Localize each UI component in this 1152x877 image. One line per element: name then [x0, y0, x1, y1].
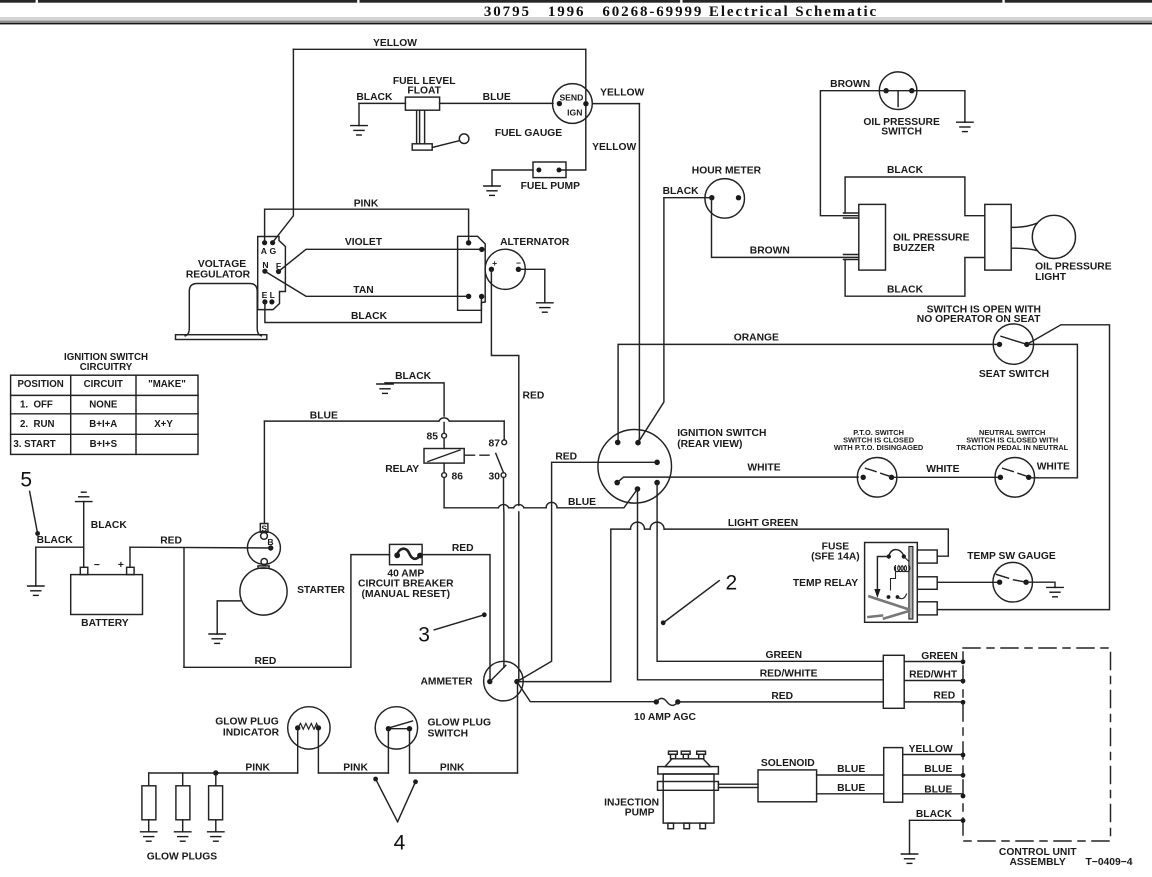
battery box	[71, 575, 143, 615]
pto switch circle	[857, 458, 897, 498]
temp relay stub 2	[917, 577, 937, 590]
wire ORANGE	[618, 344, 999, 442]
temp relay contact hooks	[887, 595, 891, 599]
blue hop over black vertical	[439, 418, 449, 421]
svg-text:X+Y: X+Y	[154, 419, 173, 430]
svg-text:BLUE: BLUE	[924, 785, 952, 796]
header tick 1	[36, 0, 38, 5]
oil pressure switch contacts	[886, 90, 912, 92]
svg-text:INDICATOR: INDICATOR	[223, 728, 280, 739]
glow plug switch circle	[375, 707, 417, 749]
wire battery minus vertical	[83, 502, 85, 568]
temp sw gauge pins	[997, 580, 1002, 585]
fuel gauge circle	[553, 84, 593, 124]
svg-text:ORANGE: ORANGE	[734, 332, 779, 343]
svg-text:10 AMP AGC: 10 AMP AGC	[634, 712, 697, 723]
svg-text:A: A	[261, 246, 267, 256]
svg-text:BLACK: BLACK	[663, 186, 700, 197]
glow plug resistor 3	[215, 773, 217, 786]
svg-text:FUEL GAUGE: FUEL GAUGE	[495, 128, 562, 139]
ground above battery (inverted)	[76, 492, 92, 501]
oil pressure light bulb	[1032, 215, 1075, 258]
svg-text:86: 86	[452, 472, 464, 483]
svg-text:WITH P.T.O. DISINGAGED: WITH P.T.O. DISINGAGED	[834, 443, 924, 452]
temp sw gauge arm	[997, 575, 1027, 583]
svg-text:N: N	[262, 260, 268, 270]
wire BLACK to float	[359, 102, 405, 104]
fuel gauge pin right	[583, 101, 588, 106]
callout 4 leaders	[376, 779, 398, 822]
buzzer connector stubs bottom-left	[844, 254, 859, 256]
ignition pin right-center	[654, 460, 660, 466]
svg-text:BROWN: BROWN	[830, 79, 870, 90]
wire BLUE connector to control unit 2	[903, 793, 963, 795]
wire starter to ground	[217, 601, 240, 634]
wire BLUE solenoid to connector 2	[817, 793, 884, 795]
tan pin dot	[466, 294, 471, 299]
svg-text:BLACK: BLACK	[916, 809, 953, 820]
svg-text:CIRCUITRY: CIRCUITRY	[80, 362, 133, 373]
fuel level float bottom	[412, 144, 432, 150]
glow plug resistor 1	[148, 773, 150, 786]
glow plug indicator pins	[295, 725, 300, 730]
svg-text:RED/WHT: RED/WHT	[909, 670, 958, 681]
wire RED connector to control unit	[904, 701, 963, 703]
svg-text:SOLENOID: SOLENOID	[761, 758, 815, 769]
svg-text:LIGHT GREEN: LIGHT GREEN	[728, 518, 798, 529]
neutral right pin	[1026, 475, 1031, 480]
temp relay coil	[894, 566, 910, 572]
solenoid box	[758, 770, 817, 802]
svg-text:OIL PRESSURE: OIL PRESSURE	[1035, 262, 1112, 273]
wire BLUE float to fuel gauge	[440, 102, 553, 104]
svg-text:YELLOW: YELLOW	[600, 88, 644, 99]
wire yellow long vertical to ignition switch	[638, 104, 639, 443]
wire YELLOW right of fuel gauge	[592, 103, 639, 105]
svg-text:RED/WHITE: RED/WHITE	[760, 669, 818, 680]
wire RED/WHT connector to control unit	[904, 680, 963, 682]
ignition pin left-lower	[614, 480, 620, 486]
wire P.T.O. WHITE from ignition left-lower	[617, 477, 858, 483]
starter S box	[260, 524, 268, 533]
svg-text:SEND: SEND	[559, 93, 583, 103]
wire fuel pump to ground	[492, 170, 533, 186]
svg-text:BLACK: BLACK	[887, 165, 924, 176]
ammeter circle	[484, 661, 524, 701]
violet pin dot at alternator connector	[479, 247, 484, 252]
svg-text:E: E	[262, 290, 268, 300]
seat switch right pin	[1024, 342, 1029, 347]
wire BLACK battery minus left	[36, 546, 84, 548]
svg-text:G: G	[270, 246, 277, 256]
fuel pump box	[533, 162, 566, 178]
svg-text:−: −	[94, 560, 100, 571]
svg-text:−: −	[516, 258, 521, 268]
svg-text:GREEN: GREEN	[921, 651, 958, 662]
svg-text:BLACK: BLACK	[356, 92, 393, 103]
ignition pin top-mid	[635, 440, 641, 446]
svg-text:(REAR VIEW): (REAR VIEW)	[677, 439, 742, 450]
relay terminal 30	[501, 473, 506, 478]
callout 5 leader	[30, 491, 38, 533]
callout 3 leader	[434, 615, 484, 630]
header gray bar	[0, 17, 1152, 21]
wire TAN from N pin to alternator connector	[265, 271, 469, 296]
fuel gauge pin left	[557, 101, 562, 106]
svg-text:WHITE: WHITE	[1037, 462, 1070, 473]
svg-text:VIOLET: VIOLET	[345, 237, 383, 248]
wire ammeter to 10 amp fuse RED	[517, 682, 654, 702]
svg-text:BLUE: BLUE	[837, 783, 865, 794]
starter main circle	[240, 568, 287, 615]
alternator minus pin	[516, 267, 521, 272]
svg-text:GREEN: GREEN	[765, 650, 802, 661]
pin N	[262, 269, 267, 274]
injection pump flange 1	[658, 767, 719, 774]
ground (temp sw gauge)	[1047, 587, 1063, 596]
svg-text:B+I+A: B+I+A	[89, 419, 117, 430]
temp relay fuse arc	[889, 550, 904, 557]
ground (float black)	[351, 126, 367, 135]
wire red plus terminal up	[129, 547, 131, 567]
ignition switch circle	[598, 430, 672, 504]
hour meter right pin	[736, 195, 741, 200]
svg-text:ALTERNATOR: ALTERNATOR	[500, 237, 570, 248]
wire RED breaker to ammeter	[422, 555, 490, 681]
ignition pin bottom-mid	[635, 486, 641, 492]
svg-text:87: 87	[489, 439, 501, 450]
fuel level float ball	[459, 134, 469, 144]
wire 30 down to ammeter	[503, 478, 505, 668]
svg-text:NONE: NONE	[89, 400, 118, 411]
neutral switch circle	[995, 458, 1035, 498]
wire VIOLET from F pin to alternator connector	[279, 249, 482, 271]
starter B pin	[268, 545, 273, 550]
svg-text:TEMP SW GAUGE: TEMP SW GAUGE	[967, 551, 1056, 562]
glow plug resistor 2	[182, 773, 184, 786]
ignition table grid	[11, 375, 198, 454]
glow plugs bus	[149, 772, 216, 774]
svg-text:BROWN: BROWN	[750, 245, 790, 256]
svg-text:PINK: PINK	[440, 762, 465, 773]
ammeter needle	[490, 665, 506, 681]
ground (glow plug 1)	[141, 832, 157, 841]
svg-text:BLUE: BLUE	[568, 497, 596, 508]
oil pressure light neck	[1012, 223, 1037, 250]
wire BLUE relay top	[264, 420, 439, 422]
svg-text:PINK: PINK	[343, 762, 368, 773]
wire WHITE pto to neutral	[892, 476, 1001, 478]
svg-text:BUZZER: BUZZER	[893, 243, 935, 254]
circuit breaker element	[397, 549, 420, 559]
wire BLUE from ignition bottom-mid	[557, 489, 637, 508]
wire BLACK buzzer loop top	[845, 177, 985, 216]
ground (alternator)	[537, 303, 553, 312]
callout 2 leader	[663, 581, 719, 623]
wire RED to ignition	[517, 462, 657, 681]
svg-text:4: 4	[394, 832, 406, 855]
wire ignition bottom-mid vertical down to RED/WHITE	[638, 489, 884, 680]
wire ignition right-lower vertical down to GREEN	[657, 483, 883, 662]
svg-text:NO OPERATOR ON SEAT: NO OPERATOR ON SEAT	[917, 314, 1041, 325]
wire BLUE solenoid to connector 1	[817, 774, 884, 776]
pto left pin	[861, 475, 866, 480]
svg-text:RED: RED	[771, 691, 793, 702]
connector box lower right	[884, 748, 903, 803]
wire GREEN connector to control unit	[904, 661, 963, 663]
relay coil box	[424, 449, 464, 464]
svg-text:SEAT SWITCH: SEAT SWITCH	[979, 369, 1049, 380]
svg-text:BLUE: BLUE	[310, 410, 338, 421]
wire BLACK to relay 85	[385, 383, 444, 416]
wire YELLOW connector to control unit	[903, 754, 963, 756]
pin A	[262, 240, 267, 245]
wire temp sw gauge to ground	[1026, 582, 1055, 587]
relay terminal 87	[502, 440, 507, 445]
svg-text:IGNITION SWITCH: IGNITION SWITCH	[677, 428, 766, 439]
seat switch arm	[1001, 336, 1027, 344]
svg-text:GLOW PLUGS: GLOW PLUGS	[147, 851, 217, 862]
injection pump feet	[668, 823, 674, 829]
alternator connector box	[458, 236, 486, 310]
svg-text:+: +	[492, 258, 497, 268]
ammeter right pin	[514, 679, 519, 684]
ground (starter)	[209, 634, 225, 643]
wire RED battery to starter B	[130, 546, 271, 549]
wire YELLOW top horizontal	[293, 48, 585, 50]
svg-text:CIRCUIT: CIRCUIT	[84, 379, 123, 390]
wire BLACK control unit to ground	[910, 819, 964, 821]
pto switch arm	[866, 468, 890, 476]
pin E	[262, 299, 267, 304]
pin G	[270, 240, 275, 245]
wire PINK 1	[216, 772, 298, 774]
wire RED battery bottom to breaker	[184, 555, 390, 668]
svg-text:YELLOW: YELLOW	[592, 142, 636, 153]
temp sw gauge circle	[993, 562, 1033, 602]
svg-text:30: 30	[489, 472, 501, 483]
wire 87 vertical	[503, 421, 505, 440]
injection pump bolts	[669, 751, 706, 759]
svg-text:RED: RED	[523, 390, 545, 401]
svg-text:T−0409−4: T−0409−4	[1086, 857, 1133, 868]
alternator connector top pin (pink)	[466, 240, 471, 245]
wire seat switch right pin loop to neutral switch	[1027, 344, 1078, 477]
svg-text:RED: RED	[933, 691, 955, 702]
svg-text:GLOW PLUG: GLOW PLUG	[428, 718, 492, 729]
wire PINK 2	[318, 772, 388, 774]
svg-text:TEMP RELAY: TEMP RELAY	[793, 578, 858, 589]
svg-text:TRACTION PEDAL IN NEUTRAL: TRACTION PEDAL IN NEUTRAL	[956, 443, 1068, 452]
fuel level float lever	[432, 141, 459, 148]
svg-text:BLUE: BLUE	[924, 764, 952, 775]
header dark line	[0, 23, 1152, 25]
svg-text:RED: RED	[452, 543, 474, 554]
fuse 10 amp agc	[654, 699, 659, 704]
svg-text:WHITE: WHITE	[747, 463, 780, 474]
wire PINK 3	[410, 772, 518, 774]
svg-text:BLUE: BLUE	[837, 764, 865, 775]
svg-text:BLACK: BLACK	[91, 520, 128, 531]
svg-text:2. RUN: 2. RUN	[20, 419, 54, 430]
ground (control unit black)	[901, 854, 917, 863]
starter lower terminal circle	[261, 559, 267, 565]
wire black down to ground	[358, 103, 360, 125]
svg-text:BLACK: BLACK	[351, 311, 388, 322]
circuit breaker box	[390, 544, 423, 564]
svg-text:PINK: PINK	[354, 199, 379, 210]
buzzer connector stubs top-left	[844, 212, 859, 214]
svg-text:RED: RED	[160, 535, 182, 546]
alternator plus pin	[489, 267, 494, 272]
header tick 2	[357, 0, 359, 5]
fuel level float tube	[416, 110, 418, 144]
pin F	[276, 269, 281, 274]
svg-text:STARTER: STARTER	[297, 585, 345, 596]
ground (glow plug 3)	[208, 832, 224, 841]
temp relay box	[865, 543, 918, 623]
svg-text:SWITCH: SWITCH	[428, 729, 469, 740]
svg-text:YELLOW: YELLOW	[909, 744, 953, 755]
svg-text:L: L	[270, 290, 275, 300]
ignition pin top-left	[615, 440, 621, 446]
header tick 3	[680, 0, 682, 5]
svg-text:REGULATOR: REGULATOR	[186, 269, 251, 280]
temp relay contact strips	[870, 597, 910, 610]
header top black bar	[0, 0, 1152, 3]
svg-text:TAN: TAN	[353, 285, 373, 296]
svg-text:RED: RED	[255, 656, 277, 667]
svg-text:(MANUAL RESET): (MANUAL RESET)	[362, 589, 450, 600]
svg-text:RED: RED	[555, 451, 577, 462]
seat switch circle	[993, 324, 1033, 364]
ground (left black)	[28, 586, 44, 595]
wire RED fuse to connector	[678, 701, 884, 703]
svg-text:FUEL PUMP: FUEL PUMP	[521, 181, 580, 192]
svg-text:85: 85	[427, 431, 439, 442]
ground (oil pressure switch)	[957, 122, 973, 131]
svg-text:BLACK: BLACK	[395, 371, 432, 382]
svg-text:2: 2	[726, 572, 738, 595]
ignition pin right-lower	[654, 480, 660, 486]
svg-text:HOUR METER: HOUR METER	[692, 165, 762, 176]
blue hop over red vertical	[514, 505, 524, 508]
rod pump to solenoid	[718, 783, 758, 785]
wire BROWN hour meter to buzzer	[712, 198, 859, 258]
temp relay coil feed	[904, 557, 909, 562]
relay terminal 86	[442, 473, 447, 478]
buzzer relay box	[985, 204, 1011, 270]
header tick 4	[1002, 0, 1004, 5]
svg-text:3: 3	[418, 624, 430, 647]
wire hour meter black down diagonal to ignition	[638, 198, 664, 443]
ground (fuel pump)	[484, 186, 500, 195]
ammeter left pin	[487, 679, 492, 684]
svg-text:FLOAT: FLOAT	[407, 85, 441, 96]
wire red junction down	[183, 548, 185, 667]
hour meter left pin	[709, 195, 714, 200]
glow plug switch contact	[390, 721, 413, 728]
wire 86 down to blue	[443, 478, 445, 508]
svg-text:ASSEMBLY: ASSEMBLY	[1009, 857, 1065, 868]
voltage regulator base flange	[176, 335, 267, 340]
svg-text:IGN: IGN	[567, 107, 582, 117]
pin L	[269, 299, 274, 304]
wire PINK loop top	[265, 209, 469, 243]
battery minus terminal	[80, 567, 88, 574]
battery plus terminal	[127, 567, 135, 574]
svg-text:OIL PRESSURE: OIL PRESSURE	[893, 233, 970, 244]
blue hop over relay 30 vertical	[498, 505, 508, 508]
svg-text:5: 5	[20, 469, 32, 492]
relay dashed link	[466, 454, 491, 456]
wire BLACK buzzer loop bottom	[845, 258, 985, 297]
wire RED from alternator plus down to ammeter	[491, 269, 518, 505]
wire seat switch lever to right vertical	[938, 325, 1109, 610]
ground (glow plug 2)	[175, 832, 191, 841]
svg-text:B+I+S: B+I+S	[90, 439, 118, 450]
svg-text:(SFE 14A): (SFE 14A)	[811, 551, 860, 562]
svg-text:YELLOW: YELLOW	[373, 38, 417, 49]
svg-text:PINK: PINK	[245, 762, 270, 773]
svg-text:RELAY: RELAY	[385, 464, 419, 475]
svg-text:BLUE: BLUE	[483, 92, 511, 103]
fuel pump pin left	[536, 168, 541, 173]
wire ammeter right to light green vertical	[517, 681, 611, 683]
svg-text:PUMP: PUMP	[625, 808, 655, 819]
svg-text:BATTERY: BATTERY	[81, 618, 129, 629]
wire yellow right vertical through fuel gauge to fuel pump	[559, 49, 586, 170]
injection pump cap	[665, 759, 711, 767]
neutral switch arm	[1003, 468, 1027, 476]
alternator connector right pin	[479, 294, 484, 299]
neutral left pin	[998, 475, 1003, 480]
voltage regulator dome	[185, 284, 261, 336]
light green hop over ignition right vertical	[650, 522, 664, 529]
wire BLACK to hour meter	[664, 197, 712, 199]
ground (relay black)	[377, 384, 393, 393]
glow plug switch pins	[386, 726, 391, 731]
glow plug switch legs	[387, 729, 389, 773]
starter solenoid circle	[247, 531, 280, 564]
alternator circle	[485, 249, 525, 289]
wire BLACK bottom from E pin to alternator connector	[265, 297, 482, 323]
injection pump flange 2	[658, 782, 719, 791]
svg-text:3. START: 3. START	[13, 439, 55, 450]
svg-text:1. OFF: 1. OFF	[20, 400, 53, 411]
svg-text:POSITION: POSITION	[17, 379, 63, 390]
svg-text:"MAKE": "MAKE"	[148, 379, 186, 390]
wire left black to ground	[35, 547, 37, 586]
injection pump body	[663, 774, 714, 823]
svg-text:BLACK: BLACK	[887, 285, 924, 296]
svg-text:AMMETER: AMMETER	[420, 677, 473, 688]
wire yellow left vertical to regulator G pin	[273, 49, 294, 242]
regulator connector box	[258, 237, 286, 310]
glow plug indicator element	[298, 723, 319, 729]
relay terminal 85	[442, 433, 447, 438]
temp relay stub 1	[917, 550, 937, 563]
glow plug indicator circle	[288, 707, 330, 749]
starter S terminal circle	[261, 533, 268, 540]
svg-text:GLOW PLUG: GLOW PLUG	[215, 717, 279, 728]
temp relay stub 3	[917, 602, 937, 615]
wire BROWN to oil pressure switch	[820, 91, 886, 216]
wire BLUE connector to control unit 1	[903, 774, 963, 776]
seat switch left pin	[997, 342, 1002, 347]
svg-text:WHITE: WHITE	[926, 464, 959, 475]
glow plug indicator legs	[297, 728, 299, 773]
